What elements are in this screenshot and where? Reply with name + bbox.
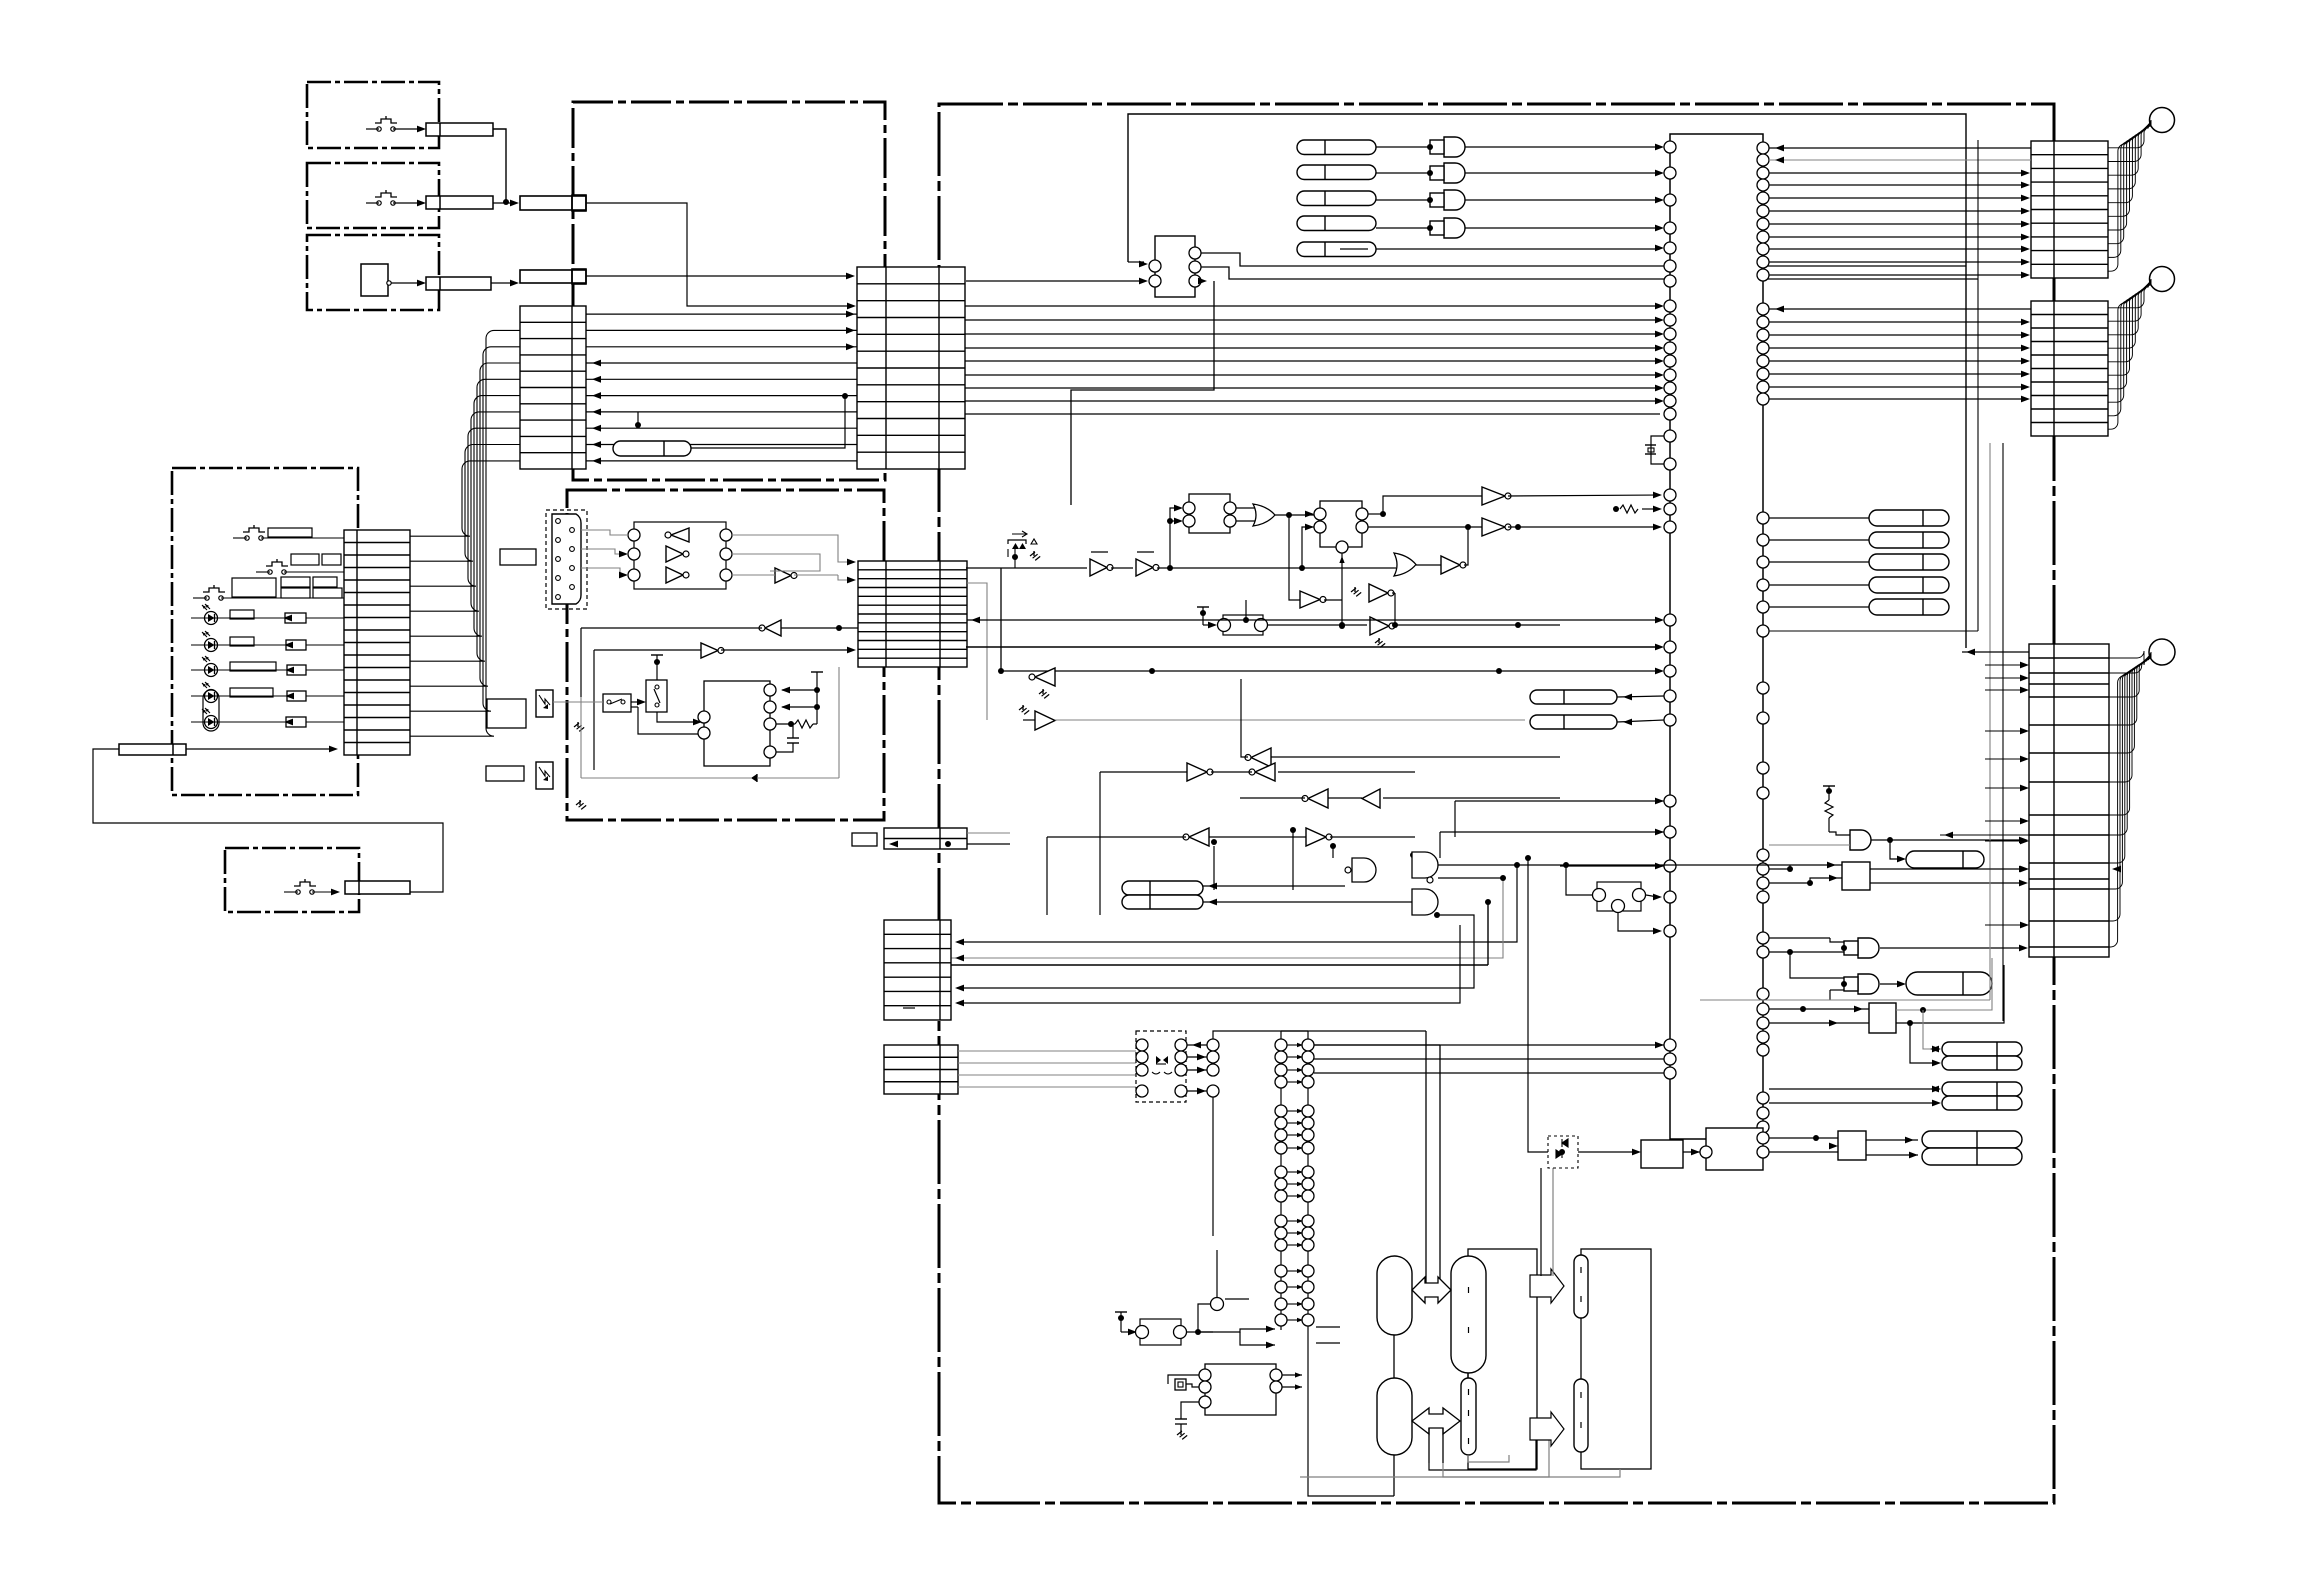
ground G1 bbox=[577, 722, 579, 727]
wire R1 to J2 bbox=[691, 398, 845, 448]
wire ladder bottom down bbox=[1308, 1330, 1394, 1496]
frame box R2 bbox=[1581, 1249, 1651, 1469]
buffer U5b bbox=[666, 546, 683, 562]
label box bbox=[268, 528, 312, 537]
capacitor C1 bbox=[787, 737, 799, 739]
label box bbox=[232, 578, 276, 597]
OR gate U12 bbox=[1253, 504, 1275, 526]
ground G6 bbox=[1042, 689, 1044, 694]
wire U16 out bbox=[1464, 527, 1468, 565]
inverter U22 bbox=[1251, 748, 1271, 767]
wire rail stackD r5 bbox=[957, 925, 1460, 1003]
wire U9 pin4 to C1 bbox=[776, 743, 793, 752]
wire top rail bbox=[1128, 114, 1966, 648]
wire U8 row bbox=[594, 649, 701, 651]
resistor pack RB2 bbox=[1122, 895, 1203, 909]
switch S8 box bbox=[603, 694, 631, 712]
wires JP3 bbox=[1563, 862, 1569, 868]
wire U30 pin3 gnd bbox=[1181, 1402, 1199, 1419]
jumper JP1 bbox=[1223, 615, 1263, 635]
wire gray branch row2 bbox=[967, 583, 987, 720]
opto coupler PC1 bbox=[1136, 1031, 1186, 1102]
NAND gate G6 bbox=[1412, 852, 1438, 878]
label box bbox=[322, 554, 341, 565]
connector CN3 bbox=[426, 277, 491, 290]
NAND gate G5 bbox=[1352, 858, 1376, 882]
NAND gate G7 bbox=[1412, 889, 1438, 915]
wire RA4 to G4 bbox=[1376, 227, 1430, 229]
label box bbox=[281, 577, 310, 587]
wire bbox=[1111, 567, 1133, 569]
AND gate G4 bbox=[1444, 218, 1465, 238]
wires B4 out bbox=[1866, 1139, 1918, 1141]
wire rail stackD r1 bbox=[957, 865, 1517, 942]
AND gate G9 bbox=[1858, 974, 1879, 994]
wire into U3 pin1 bbox=[1128, 261, 1144, 263]
label box bbox=[313, 588, 342, 598]
wire U3 out3 loop bbox=[1071, 281, 1214, 505]
wire CN7 to board edge connector row1 bbox=[586, 275, 850, 277]
wire U22 row bbox=[1271, 756, 1560, 758]
wire TP1 up bbox=[1216, 1250, 1218, 1298]
ground G3 bbox=[1033, 551, 1035, 556]
resistor pack RC0 bbox=[1906, 851, 1984, 868]
AND gate G1 bbox=[1444, 137, 1465, 157]
wire rail stackD r3 (dark) bbox=[951, 964, 1488, 966]
diode pack D7 bbox=[1548, 1136, 1578, 1168]
wire T2 bottom bbox=[1393, 1455, 1395, 1496]
comparator U31 bbox=[1706, 1128, 1763, 1170]
wire CN2 to CN6 bbox=[493, 202, 514, 204]
inverter U24 bbox=[1255, 763, 1275, 781]
buffer U5c bbox=[666, 567, 683, 583]
connector CN10 (module P4, 18 rows) bbox=[344, 530, 410, 755]
diode D6 bbox=[751, 774, 757, 782]
wire rail C (dark) bbox=[966, 646, 1660, 648]
resistor R2 bbox=[285, 613, 306, 623]
terminal ring T2 bbox=[2150, 267, 2175, 292]
harness CN13 to T1 bbox=[2108, 120, 2151, 148]
dual LED outline bbox=[203, 690, 219, 731]
wire branch down to rail D bbox=[1000, 568, 1002, 671]
resistor pack RA2 bbox=[1297, 165, 1376, 180]
wire CN4 to CN10 bbox=[186, 748, 333, 750]
buffer U14a bbox=[1482, 487, 1505, 505]
wires U11 to U12 bbox=[1236, 507, 1255, 509]
pullup R9 into U1 bbox=[1613, 506, 1619, 512]
ground G2 bbox=[579, 800, 581, 805]
wire rail D bbox=[1001, 670, 1660, 672]
wire sensor to CN3 bbox=[391, 282, 422, 284]
wire S2 to CN2 bbox=[393, 202, 422, 204]
label box bbox=[313, 577, 337, 587]
buffer U21 bbox=[1035, 711, 1055, 730]
connector CN16 (7 rows) bbox=[884, 920, 951, 1020]
inverter U19 bbox=[1300, 591, 1320, 608]
wire U3 out1 bbox=[1201, 253, 1966, 266]
solenoid T4 bbox=[1461, 1378, 1476, 1455]
label box bbox=[291, 554, 319, 565]
OR gate U15 bbox=[1394, 553, 1416, 576]
label box bbox=[230, 662, 276, 671]
resistor pack RA1 bbox=[1297, 140, 1376, 155]
connector CN12 (2 rows) bbox=[884, 828, 967, 849]
bus wires CN9 to U1 left pins bbox=[965, 305, 1660, 307]
resistor pack RA4 bbox=[1297, 216, 1376, 231]
AND gate G2 bbox=[1444, 163, 1465, 183]
wire header down bbox=[1212, 1097, 1214, 1236]
label box bbox=[230, 688, 273, 697]
wire T3-T4 link bbox=[1467, 1373, 1469, 1378]
driver block B4 bbox=[1838, 1131, 1866, 1160]
inverter U17 bbox=[1370, 617, 1389, 635]
test point TP1 bbox=[1211, 1298, 1224, 1311]
crystal X2 bbox=[1175, 1379, 1186, 1390]
connector J3 (D-sub) bbox=[546, 510, 587, 609]
harness CN14 to T2 bbox=[2108, 279, 2151, 308]
LED D5 bbox=[205, 716, 218, 729]
buffer U18 bbox=[1369, 584, 1388, 602]
wire CN12 rows bbox=[967, 832, 1010, 834]
wire U7 row bbox=[781, 627, 858, 629]
wire S5 to CN10 bbox=[256, 571, 270, 573]
wire T1-T2 link bbox=[1393, 1335, 1395, 1378]
LED D3 bbox=[205, 664, 218, 677]
resistor pack RA3 bbox=[1297, 191, 1376, 206]
resistor packs RD1-RD5 bbox=[1869, 510, 1949, 526]
ladder top rail bbox=[1281, 1030, 1308, 1032]
connector CN5 bbox=[345, 881, 410, 894]
switch S9 box bbox=[646, 680, 667, 712]
solenoid T1 bbox=[1377, 1256, 1412, 1335]
switch S7 bbox=[296, 890, 300, 894]
AND gate G3 bbox=[1444, 190, 1465, 210]
wires G9 bbox=[1790, 952, 1844, 978]
wires D-sub to U5 bbox=[581, 530, 628, 535]
line receiver U5 bbox=[634, 522, 726, 589]
connector CN2 bbox=[426, 196, 493, 209]
AND gate G10 bbox=[1850, 830, 1871, 850]
wires U1 left 801-832 bbox=[1455, 800, 1664, 802]
wire vertical to D7 bbox=[1528, 858, 1548, 1152]
driver block B3 bbox=[1641, 1140, 1683, 1168]
connector CN15 bbox=[2029, 644, 2109, 957]
switch S2 bbox=[377, 201, 381, 205]
pcb main board outline bbox=[939, 104, 2054, 1503]
frame box R1 bbox=[1468, 1249, 1537, 1469]
terminal ring T3 bbox=[2149, 639, 2175, 665]
vertical link wires bbox=[1213, 846, 1215, 890]
inverter U7 bbox=[765, 620, 781, 636]
jumper JP3 bbox=[1597, 882, 1641, 911]
double arrow A1 bbox=[1426, 1031, 1440, 1283]
wire LED D1 row bbox=[191, 617, 344, 619]
node J2 on row wire bbox=[842, 393, 848, 399]
wires G8 bbox=[1769, 937, 1830, 939]
wire rail stackD r2 bbox=[951, 878, 1503, 958]
wire G2 to U1 bbox=[1465, 172, 1660, 174]
wire to JP2 bbox=[1121, 1331, 1133, 1333]
wire RA3 to G3 bbox=[1376, 199, 1430, 201]
power rail Vcc U9 bbox=[811, 671, 823, 673]
wire header frame bbox=[1213, 1031, 1426, 1039]
resistor pack RC3 bbox=[1942, 1056, 2022, 1070]
wires into U1 top right bbox=[1769, 147, 2031, 149]
wire G10 branch bbox=[1890, 840, 1902, 859]
wire U17 out bbox=[1393, 624, 1560, 626]
inverter U27 bbox=[1189, 828, 1209, 846]
wire G3 to U1 bbox=[1465, 199, 1660, 201]
wire U11 feed bbox=[1170, 508, 1179, 568]
wire S7 to CN5 bbox=[312, 891, 335, 893]
sensor SW3 block bbox=[361, 264, 388, 296]
LED D4 bbox=[205, 690, 218, 703]
sensor output pin bbox=[387, 281, 391, 285]
connector CN8 (board A edge, 10 rows) bbox=[520, 306, 586, 469]
module box P2 (second switch unit) bbox=[307, 163, 439, 228]
wire logic rail A bbox=[1014, 557, 1016, 568]
ground G7 bbox=[1022, 705, 1024, 710]
power tap JP1 bbox=[1197, 606, 1209, 608]
wire CN6 to board edge connector bbox=[586, 203, 851, 306]
resistor R4 bbox=[287, 665, 306, 675]
solenoid T5 bbox=[1574, 1255, 1588, 1318]
phone jack J4 bbox=[536, 690, 553, 717]
wire S1 lead bbox=[366, 128, 379, 130]
wire jack to S8 bbox=[553, 701, 603, 703]
wire U14 outputs bbox=[1508, 495, 1658, 496]
wire U19 bbox=[1289, 515, 1300, 600]
wire G4 to U1 bbox=[1465, 227, 1660, 229]
power tap node bbox=[656, 660, 658, 680]
gray return wires bbox=[1300, 1469, 1620, 1477]
LED D2 bbox=[205, 639, 218, 652]
label box bbox=[230, 637, 254, 646]
wire U7 to jack bbox=[580, 628, 582, 697]
wire harness CN8 to CN10 (9 lines) bbox=[410, 461, 520, 536]
opto ladder bbox=[1280, 1031, 1282, 1330]
switch S4 bbox=[245, 536, 249, 540]
wire S9 to U9 bbox=[657, 712, 698, 722]
switch S5 bbox=[268, 570, 272, 574]
wires into CN15 bbox=[1985, 664, 2025, 666]
resistor pack RC1 bbox=[1906, 972, 1992, 995]
wires B2 in bbox=[1769, 1008, 1869, 1010]
wires U1 bottom left pins bbox=[1314, 1044, 1664, 1046]
buffer U8 bbox=[701, 643, 718, 658]
flip-flop U13 bbox=[1320, 501, 1362, 547]
connector CN6 bbox=[520, 196, 586, 210]
wire FF2 bottom bbox=[1341, 553, 1343, 626]
value dash CN16 bbox=[903, 1007, 915, 1009]
buffer U5a bbox=[671, 528, 689, 542]
wire rail E bbox=[1055, 719, 1525, 721]
phone jack J5 bbox=[536, 762, 553, 789]
wire into U13 pins bbox=[1305, 511, 1314, 518]
wire ladder to A1 shaft bbox=[1314, 1044, 1440, 1046]
wire B3 to U31 bbox=[1683, 1151, 1704, 1153]
arrow A4 into T6 bbox=[1530, 1412, 1564, 1446]
resistor R6 bbox=[286, 717, 306, 727]
wire LED D5 row bbox=[191, 721, 344, 723]
module box P1 (top switch unit) bbox=[307, 82, 439, 148]
arrow A3 into T5 bbox=[1530, 1269, 1564, 1303]
wire S6 to CN10 bbox=[193, 597, 207, 599]
node J1 bbox=[503, 199, 509, 205]
wires B1 bbox=[1516, 864, 1842, 866]
wire B2 to RC2 bbox=[1923, 1010, 1937, 1049]
wire CN1 to junction bbox=[493, 129, 506, 200]
wires PC1 out bbox=[1187, 1044, 1207, 1046]
connector CN13 (10 rows) bbox=[2031, 141, 2108, 278]
buffer U14b bbox=[1482, 518, 1505, 536]
power tap + resistor R8 bbox=[1823, 785, 1835, 787]
resistor R3 bbox=[286, 640, 306, 650]
inverter U23 bbox=[1187, 763, 1207, 781]
ground G5 bbox=[1354, 587, 1356, 592]
wire G7 out bbox=[1438, 877, 1503, 879]
wire rail A to U15 bbox=[1394, 567, 1396, 569]
resistor R7 (zigzag) bbox=[795, 720, 813, 728]
connector CN17 (4 rows) bbox=[884, 1045, 958, 1094]
resistor R1 (board A) bbox=[613, 441, 691, 456]
inverter U25 bbox=[1308, 789, 1328, 808]
wire CN16 arrows bbox=[955, 939, 964, 946]
module box P3 (sensor unit) bbox=[307, 235, 439, 310]
label box bbox=[852, 833, 877, 846]
wire RA2 to G2 bbox=[1376, 172, 1430, 174]
wire U1 to G10 bbox=[1769, 844, 1850, 846]
stadium pair left of U1 bbox=[1530, 690, 1617, 704]
reset IC U3 bbox=[1155, 236, 1195, 297]
solenoid T6 bbox=[1574, 1379, 1588, 1452]
resistor pack RB1 bbox=[1122, 881, 1203, 895]
signal flag glyph bbox=[1012, 531, 1027, 537]
capacitor C2 + ground G8 bbox=[1175, 1418, 1187, 1420]
jumper JP2 bbox=[1140, 1319, 1181, 1345]
label box bbox=[486, 766, 524, 781]
switch S1 bbox=[377, 127, 381, 131]
wires stadium to U1 bbox=[1617, 696, 1664, 697]
wire RA1 to G1 bbox=[1376, 146, 1430, 148]
wires RC4/RC5 in bbox=[1769, 1088, 1937, 1090]
bus wires CN8 to CN9 bbox=[586, 313, 857, 315]
wire into U3 pin2 bbox=[966, 280, 1144, 282]
pcb block A (upper center board) bbox=[573, 102, 885, 480]
connector CN14 (10 rows) bbox=[2031, 301, 2108, 436]
wire stackC row1 left bbox=[1962, 651, 2029, 653]
crystal X1 bbox=[1651, 436, 1664, 464]
wires U30 out bbox=[1282, 1374, 1302, 1376]
microcontroller U1 bbox=[1670, 134, 1763, 1139]
wire U27 row bbox=[1047, 836, 1186, 838]
vertical bus right bbox=[1966, 647, 1968, 649]
pin header column bbox=[1207, 1039, 1219, 1051]
connector CN9 (board A to main board, 12 rows) bbox=[857, 267, 965, 469]
wire S1 to CN1 bbox=[393, 128, 422, 130]
inverter U16 bbox=[1441, 556, 1460, 574]
connector CN4 (module P4 aux) bbox=[119, 744, 186, 755]
analog IC U9 bbox=[704, 681, 770, 766]
wire S8 to S9 bbox=[631, 701, 641, 703]
double arrow A2 bbox=[1412, 1408, 1460, 1434]
wire diode row bbox=[581, 777, 751, 779]
wire U13 out2 bbox=[1368, 526, 1482, 528]
LED D1 bbox=[205, 612, 218, 625]
wire rail to U9 pins bbox=[782, 689, 817, 691]
connector CN7 bbox=[520, 270, 586, 283]
wires U1 to CN13 bbox=[1769, 172, 2026, 174]
resistor pack RA5 bbox=[1297, 242, 1376, 257]
wires U1 to CN14 bbox=[1769, 321, 2026, 323]
label box bbox=[487, 699, 526, 728]
wire U25 row bbox=[1328, 797, 1362, 799]
wires X2 to U30 bbox=[1168, 1375, 1199, 1384]
solenoid T2 bbox=[1377, 1378, 1412, 1455]
inverter U10b bbox=[1136, 559, 1153, 576]
driver block B1 bbox=[1842, 862, 1870, 890]
wire LED D4 row bbox=[191, 695, 344, 697]
connector CN1 bbox=[426, 123, 493, 136]
resistor pack RC5 bbox=[1942, 1096, 2022, 1110]
wire U23-U24 row bbox=[1100, 771, 1187, 773]
inverter U28 bbox=[1306, 828, 1326, 846]
wire D7 to B3 bbox=[1578, 1151, 1637, 1153]
inverter U20 bbox=[1035, 668, 1055, 686]
wire JP2 out bbox=[1187, 1331, 1213, 1333]
wire rail B bbox=[967, 619, 1660, 621]
connector CN11 (board B to main, 12 rows) bbox=[858, 561, 967, 667]
wire RA5 to U1 bbox=[1376, 248, 1660, 250]
wire rail stackD r4 bbox=[957, 915, 1474, 988]
pcb block B (lower center board) bbox=[567, 490, 884, 820]
wires RB rows bbox=[1203, 885, 1345, 887]
solenoid T3 bbox=[1451, 1256, 1486, 1373]
value dash RA5 bbox=[1340, 248, 1368, 250]
resistor pack RC7 bbox=[1922, 1148, 2022, 1165]
resistor R5 bbox=[287, 691, 306, 701]
wire rail A cont bbox=[1157, 567, 1394, 569]
wire LED D2 row bbox=[191, 644, 344, 646]
wire S7 lead bbox=[284, 891, 298, 893]
oscillator IC U30 bbox=[1205, 1364, 1276, 1415]
wire G6 out bbox=[1438, 864, 1516, 866]
wires to ladder pins bbox=[1198, 1329, 1275, 1332]
inverter U10a bbox=[1090, 559, 1107, 576]
wire U12 out bbox=[1275, 514, 1314, 516]
wire S2 lead bbox=[366, 202, 379, 204]
inverter U26 bbox=[1362, 789, 1380, 808]
wire U13 out1 bbox=[1368, 513, 1383, 515]
resistor pack RC4 bbox=[1942, 1082, 2022, 1096]
inverter U6 bbox=[775, 568, 791, 583]
harness CN15 to T3 bbox=[2109, 651, 2151, 665]
wire shafts A3 bbox=[1540, 1168, 1542, 1276]
wire A2 path to A4 bbox=[1429, 1433, 1536, 1470]
wire LED D3 row bbox=[191, 669, 344, 671]
wire CN3 to CN7 bbox=[491, 282, 514, 284]
wire CN4 loop to module P5 bbox=[93, 749, 443, 892]
wire G10 out bbox=[1871, 839, 2024, 841]
wire U9 feedback bbox=[638, 707, 698, 734]
label box bbox=[230, 610, 254, 619]
flip-flop U11 bbox=[1189, 494, 1230, 533]
wires CN17 to opto bbox=[958, 1050, 1136, 1052]
terminal ring T1 bbox=[2150, 108, 2175, 133]
wire U18 out bbox=[1392, 592, 1395, 594]
resistor pack RC2 bbox=[1942, 1042, 2022, 1056]
wire G9 out bbox=[1880, 983, 1902, 985]
